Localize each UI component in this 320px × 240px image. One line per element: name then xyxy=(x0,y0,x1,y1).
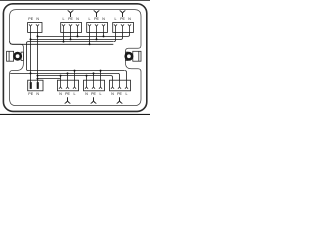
svg-text:PE: PE xyxy=(91,92,96,96)
node N at X6 xyxy=(60,75,62,77)
svg-text:N: N xyxy=(102,17,105,21)
wire box X2 L stub xyxy=(63,32,65,41)
node PE bottom at X5 drop xyxy=(30,72,32,74)
wire N drop X1-X5 xyxy=(37,32,39,82)
cable gland right: flange bracket xyxy=(125,52,127,60)
wire box X2 PE stub xyxy=(70,32,72,39)
wire box X3 L stub xyxy=(89,32,91,44)
wires: bus lines xyxy=(10,32,130,82)
terminal clamps X1 xyxy=(29,24,39,32)
svg-text:N: N xyxy=(111,92,114,96)
wire box X7 N stub xyxy=(86,76,88,81)
terminal clamps X6 xyxy=(59,80,76,89)
node PE at X6 xyxy=(67,72,69,74)
page rule bottom xyxy=(0,114,150,115)
enclosure outer wall xyxy=(3,4,146,112)
wire L bus bottom xyxy=(28,70,125,72)
svg-text:PE: PE xyxy=(94,17,99,21)
wire box X4 N corner xyxy=(128,32,130,36)
node L at X7 xyxy=(100,70,102,72)
svg-text:N: N xyxy=(76,17,79,21)
lamp outlet symbol above X4 xyxy=(120,11,126,18)
svg-text:N: N xyxy=(36,92,39,96)
svg-text:L: L xyxy=(115,17,117,21)
node PE at X2 xyxy=(70,38,72,40)
node N link at X5 xyxy=(37,78,39,80)
svg-text:PE: PE xyxy=(68,17,73,21)
junction dots xyxy=(30,35,105,79)
svg-text:L: L xyxy=(126,92,128,96)
wire N link to box X6 xyxy=(38,78,61,80)
node L at X2 xyxy=(63,41,65,43)
node PE at X3 xyxy=(96,38,98,40)
connector box X2 outline xyxy=(61,23,82,33)
wire box X3 PE stub xyxy=(96,32,98,39)
svg-text:N: N xyxy=(85,92,88,96)
node L at X6 xyxy=(74,70,76,72)
terminal clamps X3 xyxy=(88,24,105,32)
wire box X8 PE corner xyxy=(118,73,120,80)
wire box X6 N stub xyxy=(60,76,62,81)
lamp outlet symbol below X8 xyxy=(117,97,123,103)
feed-through terminal bars X5 xyxy=(30,82,39,89)
svg-text:L: L xyxy=(89,17,91,21)
svg-text:N: N xyxy=(36,17,39,21)
connector box X7 outline xyxy=(84,80,105,91)
cable gland left: flange bracket xyxy=(21,52,23,60)
wire box X4 L corner xyxy=(114,32,116,41)
node PE at X7 xyxy=(93,72,95,74)
connector box X6 outline xyxy=(58,80,79,91)
wire box X7 PE stub xyxy=(93,73,95,80)
wire box X6 L stub xyxy=(74,71,76,81)
lamp outlet symbol above X2 xyxy=(68,11,74,18)
svg-text:L: L xyxy=(74,92,76,96)
connector box X1 top-left outline xyxy=(28,23,42,33)
wire box X6 PE stub xyxy=(67,73,69,80)
svg-text:L: L xyxy=(100,92,102,96)
connector box X8 outline xyxy=(110,80,131,91)
wire box X8 N corner xyxy=(111,76,113,81)
terminal clamps X2 xyxy=(62,24,79,32)
wire box X2 N stub xyxy=(77,32,79,36)
connector box X3 outline xyxy=(87,23,108,33)
cable gland left: sealing ring xyxy=(14,53,20,59)
node N top at X1 xyxy=(37,35,39,37)
wire N bus top xyxy=(38,35,129,37)
wire L bus top xyxy=(28,41,114,43)
cable gland right: body xyxy=(133,51,141,61)
svg-text:PE: PE xyxy=(65,92,70,96)
wire box X8 L corner xyxy=(125,71,127,81)
svg-text:PE: PE xyxy=(28,17,33,21)
svg-text:N: N xyxy=(59,92,62,96)
terminal clamps X8 xyxy=(111,80,128,89)
node PE top at X1 xyxy=(30,38,32,40)
wire box X7 L stub xyxy=(100,71,102,81)
svg-text:N: N xyxy=(128,17,131,21)
wire PE bus top xyxy=(31,38,122,40)
lamp outlet symbol below X7 xyxy=(91,97,97,103)
page rule top xyxy=(0,0,150,2)
terminal clamps X4 xyxy=(114,24,131,32)
svg-text:PE: PE xyxy=(28,92,33,96)
node Lb at X3 xyxy=(89,43,91,45)
node N at X2 xyxy=(77,35,79,37)
svg-text:PE: PE xyxy=(120,17,125,21)
cable gland right: sealing ring xyxy=(126,53,132,59)
wire box X4 PE corner xyxy=(121,32,123,39)
connector box X5 bottom-left outline xyxy=(28,80,43,91)
wire PE bus bottom xyxy=(10,72,118,74)
node N at X3 xyxy=(103,35,105,37)
lamp outlet symbol below X6 xyxy=(65,97,71,103)
enclosure inner wall with gland notches xyxy=(10,10,141,106)
node N at X7 xyxy=(86,75,88,77)
wire N bus bottom xyxy=(38,75,112,77)
cable gland left: body xyxy=(7,51,14,61)
svg-text:L: L xyxy=(63,17,65,21)
wire switched line from left gland xyxy=(10,41,114,44)
terminal clamps X7 xyxy=(85,80,102,89)
node N bottom at X5 drop xyxy=(37,75,39,77)
wire PE drop X1-X5 xyxy=(30,32,32,82)
connector box X4 outline xyxy=(113,23,134,33)
svg-text:PE: PE xyxy=(117,92,122,96)
lamp outlet symbol above X3 xyxy=(94,11,100,18)
wire L riser left xyxy=(27,42,29,71)
wire box X3 N stub xyxy=(103,32,105,36)
